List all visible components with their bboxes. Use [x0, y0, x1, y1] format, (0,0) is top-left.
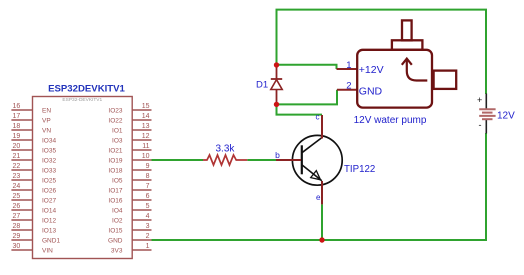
svg-text:3V3: 3V3 — [111, 248, 123, 255]
svg-text:IO23: IO23 — [108, 108, 122, 115]
svg-text:12: 12 — [142, 133, 150, 140]
svg-text:23: 23 — [13, 173, 21, 180]
svg-text:IO2: IO2 — [112, 218, 123, 225]
svg-text:18: 18 — [13, 123, 21, 130]
svg-text:ESP32-DEVKITV1: ESP32-DEVKITV1 — [62, 97, 102, 103]
svg-text:-: - — [479, 120, 482, 130]
svg-text:29: 29 — [13, 233, 21, 240]
svg-text:IO25: IO25 — [42, 178, 56, 185]
svg-text:12V water pump: 12V water pump — [354, 115, 427, 126]
svg-text:12V: 12V — [497, 111, 515, 122]
svg-text:IO17: IO17 — [108, 188, 122, 195]
svg-text:IO12: IO12 — [42, 218, 56, 225]
svg-text:b: b — [275, 150, 280, 160]
svg-text:22: 22 — [13, 163, 21, 170]
svg-text:+12V: +12V — [359, 64, 384, 76]
svg-text:GND: GND — [359, 86, 383, 98]
svg-text:IO19: IO19 — [108, 158, 122, 165]
svg-text:c: c — [316, 112, 320, 121]
svg-text:ESP32DEVKITV1: ESP32DEVKITV1 — [48, 84, 125, 95]
svg-text:21: 21 — [13, 153, 21, 160]
svg-text:15: 15 — [142, 103, 150, 110]
svg-text:5: 5 — [146, 203, 150, 210]
svg-text:2: 2 — [346, 81, 351, 92]
svg-text:IO1: IO1 — [112, 128, 123, 135]
svg-text:IO26: IO26 — [42, 188, 56, 195]
svg-text:26: 26 — [13, 203, 21, 210]
svg-text:3: 3 — [146, 223, 150, 230]
svg-text:6: 6 — [146, 193, 150, 200]
svg-text:IO14: IO14 — [42, 208, 56, 215]
svg-text:IO5: IO5 — [112, 178, 123, 185]
svg-text:17: 17 — [13, 113, 21, 120]
svg-text:20: 20 — [13, 143, 21, 150]
svg-text:8: 8 — [146, 173, 150, 180]
svg-text:EN: EN — [42, 108, 51, 115]
svg-text:IO21: IO21 — [108, 148, 122, 155]
svg-text:25: 25 — [13, 193, 21, 200]
svg-text:IO34: IO34 — [42, 138, 56, 145]
svg-text:2: 2 — [146, 233, 150, 240]
svg-text:14: 14 — [142, 113, 150, 120]
svg-text:IO35: IO35 — [42, 148, 56, 155]
svg-text:IO33: IO33 — [42, 168, 56, 175]
svg-text:IO15: IO15 — [108, 228, 122, 235]
svg-text:GND: GND — [108, 238, 123, 245]
svg-text:30: 30 — [13, 243, 21, 250]
svg-text:IO4: IO4 — [112, 208, 123, 215]
svg-text:IO3: IO3 — [112, 138, 123, 145]
svg-text:e: e — [316, 193, 321, 202]
svg-text:IO27: IO27 — [42, 198, 56, 205]
svg-text:+: + — [477, 95, 482, 105]
svg-text:13: 13 — [142, 123, 150, 130]
svg-text:28: 28 — [13, 223, 21, 230]
svg-text:4: 4 — [146, 213, 150, 220]
svg-text:19: 19 — [13, 133, 21, 140]
svg-text:TIP122: TIP122 — [344, 164, 375, 175]
svg-text:VN: VN — [42, 128, 51, 135]
svg-text:VIN: VIN — [42, 248, 53, 255]
svg-text:7: 7 — [146, 183, 150, 190]
svg-text:16: 16 — [13, 103, 21, 110]
svg-text:27: 27 — [13, 213, 21, 220]
svg-text:IO22: IO22 — [108, 118, 122, 125]
svg-text:D1: D1 — [256, 79, 268, 90]
svg-text:IO32: IO32 — [42, 158, 56, 165]
svg-text:1: 1 — [346, 60, 351, 71]
svg-text:10: 10 — [142, 153, 150, 160]
svg-text:IO16: IO16 — [108, 198, 122, 205]
svg-text:1: 1 — [146, 243, 150, 250]
svg-text:24: 24 — [13, 183, 21, 190]
svg-text:VP: VP — [42, 118, 51, 125]
svg-text:9: 9 — [146, 163, 150, 170]
svg-text:IO13: IO13 — [42, 228, 56, 235]
svg-text:IO18: IO18 — [108, 168, 122, 175]
svg-text:GND1: GND1 — [42, 238, 60, 245]
svg-text:3.3k: 3.3k — [216, 144, 236, 155]
svg-text:11: 11 — [142, 143, 149, 150]
